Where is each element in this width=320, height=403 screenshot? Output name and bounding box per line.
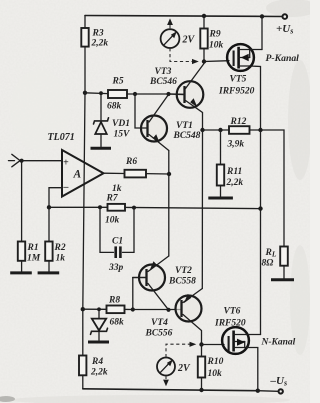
arrow to -rail from meter [163,376,169,386]
node input [20,159,24,163]
node C1 right [132,206,136,210]
wire input to op-amp + [22,160,62,162]
node R8 right / VT2 base [131,307,135,311]
ground under R2 [38,271,60,274]
svg-text:15V: 15V [114,130,131,140]
svg-text:3,9k: 3,9k [227,140,245,150]
meter M2 2V bottom [157,358,175,376]
svg-text:2,2k: 2,2k [226,178,244,188]
svg-text:IRF520: IRF520 [214,319,246,329]
resistor R3 [81,16,88,93]
svg-text:1k: 1k [56,254,66,264]
svg-text:R4: R4 [91,357,103,367]
svg-text:10k: 10k [209,41,224,51]
svg-text:68k: 68k [107,102,122,112]
resistor R12 3,9k [229,126,261,134]
node VT4 base / VT2 collector [166,308,170,312]
svg-text:R5: R5 [112,77,124,87]
zener VD2 [91,309,108,340]
wire VT5 source to output column [250,66,261,130]
transistor VT3 BC546 [169,64,205,131]
svg-text:R9: R9 [209,30,221,40]
node R6 output [167,172,171,176]
input arrow terminal [9,154,20,167]
wire gate node to VT6 [202,344,225,346]
svg-text:2V: 2V [177,363,191,374]
wire to load RL [261,130,285,247]
resistor R4 2,2k [79,309,86,389]
resistor R6 1k [125,170,170,178]
transistor VT1 BC548 [135,94,169,151]
svg-text:8Ω: 8Ω [262,259,274,269]
arrow to +rail from meter [167,18,173,30]
ground under RL [271,278,294,281]
resistor R1 1M [18,161,25,272]
ground under VD2 [88,341,109,344]
svg-text:BC556: BC556 [145,329,173,339]
resistor R2 1k [45,207,52,271]
dashed pointer meter to VT6 gate node [166,342,196,358]
wire main V+/V- column through op-amp [83,93,85,309]
wire to -Us terminal [258,390,278,393]
resistor R5 [108,90,135,98]
svg-text:1M: 1M [27,254,41,264]
wire VT2 base riser [132,278,134,310]
svg-text:VT1: VT1 [176,121,193,131]
wire driver column A [168,151,170,257]
svg-text:A: A [73,169,82,181]
svg-text:RL: RL [265,248,277,259]
wire feedback line left [49,206,108,208]
svg-text:BC546: BC546 [149,77,177,87]
wire op-amp inverting input [49,188,62,208]
node R11 tap [218,128,222,132]
node VD2 tap [97,307,101,311]
svg-text:VT6: VT6 [224,307,241,317]
wire bottom -Us rail [83,389,258,391]
svg-text:VT3: VT3 [155,67,172,77]
wire op-amp output [104,172,125,174]
svg-text:2,2k: 2,2k [91,39,109,49]
resistor RL 8ohm [280,247,288,279]
zener VD1 15V [94,93,109,146]
svg-text:BC548: BC548 [173,131,201,141]
node supply column / R8 / R4 [81,307,85,311]
svg-text:10k: 10k [208,369,223,379]
resistor R11 2,2k [217,130,224,196]
svg-text:IRF9520: IRF9520 [218,87,255,97]
node R9 top [202,14,206,18]
node feedback [47,205,51,209]
node VT5 gate / R9 bottom [202,59,206,63]
svg-text:VT2: VT2 [175,266,192,276]
svg-text:R12: R12 [230,117,247,127]
svg-text:R8: R8 [108,296,120,306]
svg-text:–: – [63,182,69,193]
svg-text:R3: R3 [92,29,104,39]
svg-text:R11: R11 [226,167,242,177]
node VD1 tap [99,91,103,95]
node R10 bottom [199,388,203,392]
svg-text:VD1: VD1 [112,119,130,129]
mosfet VT6 IRF520 [222,327,260,354]
wire R12 line [203,129,230,131]
svg-text:1k: 1k [112,184,122,194]
svg-text:68k: 68k [110,318,125,328]
svg-text:2,2k: 2,2k [90,368,108,378]
wire driver column B (VT3 emitter to VT4 emitter) [201,130,203,289]
terminal +Us [283,14,288,19]
node C1 left [98,205,102,209]
dashed pointer meter to VT5 gate node [170,48,199,64]
svg-text:33p: 33p [108,263,124,273]
node feedback tap on output [258,206,262,210]
svg-text:TL071: TL071 [48,132,75,143]
node R5 / VT1 base [133,92,137,96]
terminal -Us [279,389,283,393]
node VT5 drain to rail [260,14,264,18]
node VT3 emitter / R12 [200,128,204,132]
wire gate node to VT5 [204,60,229,63]
svg-text:R7: R7 [106,194,119,204]
svg-text:R10: R10 [207,357,224,367]
op-amp U1 TL071 [62,150,104,197]
svg-text:VT4: VT4 [151,318,168,328]
wire R5 node to VT3 base node [135,93,169,95]
svg-text:+: + [63,158,69,169]
svg-text:2V: 2V [182,35,196,46]
transistor VT4 BC556 [176,289,203,345]
svg-text:BC558: BC558 [168,277,196,287]
resistor R7 10k [108,204,126,211]
node R3/R5/VD1 [83,91,87,95]
svg-text:C1: C1 [112,237,123,247]
node output / R12 right [258,128,262,132]
svg-text:R6: R6 [125,157,137,167]
node VT4 collector / VT6 gate / R10 [199,342,203,346]
transistor VT2 BC558 [133,256,169,310]
node VT6 source / rail [256,389,260,393]
wire VT5 drain [261,16,263,49]
wire VT6 source to rail [245,348,258,391]
svg-text:R2: R2 [54,243,66,253]
svg-text:P-Kanal: P-Kanal [266,53,300,64]
resistor R8 68k [83,306,133,314]
ground under R1 [10,271,32,274]
svg-text:R1: R1 [27,243,39,253]
wire feedback line right to output column [125,207,261,208]
resistor R9 10k [200,16,207,62]
svg-text:VT5: VT5 [230,75,247,85]
wire node to R5 [85,92,108,95]
wire R8 line to VT4 base [133,309,182,311]
wire output column [260,130,262,335]
ground under VD1 [91,147,112,150]
svg-text:N-Kanal: N-Kanal [261,338,296,348]
resistor R10 10k [198,345,205,391]
mosfet VT5 IRF9520 [227,44,262,71]
svg-text:10k: 10k [105,216,120,226]
wire top +Us rail [85,16,283,17]
capacitor C1 33p [100,207,134,258]
node VT3 base / VT1 collector [166,92,170,96]
meter M1 2V top [161,29,180,48]
ground under R11 [208,197,233,200]
